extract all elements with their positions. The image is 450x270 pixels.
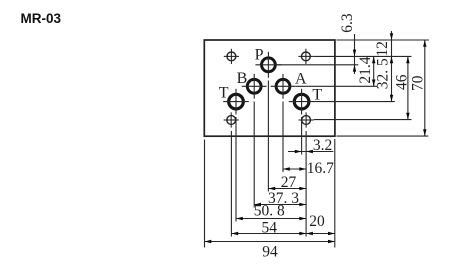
extension line port T left bbox=[235, 117, 237, 222]
bolt hole top-right bbox=[298, 49, 313, 64]
label T left bbox=[219, 85, 229, 102]
svg-text:50. 8: 50. 8 bbox=[254, 203, 285, 220]
dimension 70 bbox=[410, 40, 427, 136]
svg-text:32. 5: 32. 5 bbox=[375, 58, 392, 89]
port P bbox=[255, 52, 281, 78]
svg-text:MR-03: MR-03 bbox=[21, 11, 62, 26]
extension line port B bbox=[253, 102, 255, 208]
dimension 32.5 bbox=[375, 40, 394, 102]
dimension 16.7 bbox=[283, 160, 334, 177]
title MR-03 bbox=[21, 11, 62, 26]
svg-text:A: A bbox=[295, 70, 307, 87]
plate outline bbox=[204, 40, 335, 136]
extension line left bolt column bbox=[230, 131, 232, 237]
dimension 46 bbox=[393, 56, 410, 119]
dimension 94 bbox=[205, 240, 335, 261]
extension line right bolt column bbox=[305, 131, 307, 237]
dimension 21.4 bbox=[357, 56, 375, 86]
dimension 20 bbox=[306, 213, 335, 235]
svg-text:70: 70 bbox=[410, 75, 427, 91]
port B bbox=[242, 74, 267, 99]
dimension 54 bbox=[231, 220, 306, 237]
svg-text:T: T bbox=[219, 85, 229, 102]
svg-text:6.3: 6.3 bbox=[339, 13, 356, 33]
extension line port P bbox=[267, 81, 269, 192]
extension line port T row bbox=[315, 101, 395, 103]
svg-text:16.7: 16.7 bbox=[307, 160, 334, 177]
dimension 12 bbox=[374, 31, 393, 57]
port T right bbox=[289, 89, 315, 115]
port T left bbox=[223, 89, 249, 115]
svg-text:54: 54 bbox=[262, 220, 278, 237]
extension line plate top edge bbox=[337, 39, 429, 41]
extension line plate right edge bbox=[334, 139, 336, 248]
svg-text:27: 27 bbox=[281, 174, 297, 191]
extension line plate bottom edge bbox=[337, 135, 429, 137]
extension line port A row bbox=[296, 85, 378, 87]
label P bbox=[255, 46, 264, 63]
svg-text:94: 94 bbox=[262, 244, 278, 261]
dimension 37.3 bbox=[254, 190, 306, 207]
dimension 3.2 bbox=[288, 137, 333, 154]
dimension 27 bbox=[268, 174, 306, 191]
extension line plate left edge bbox=[204, 140, 206, 248]
dimension 50.8 bbox=[236, 203, 306, 221]
label A bbox=[295, 70, 307, 87]
extension line port P row bbox=[276, 64, 358, 66]
label B bbox=[237, 70, 248, 87]
extension line port A bbox=[282, 102, 284, 173]
extension line bottom bolt row bbox=[314, 119, 412, 121]
svg-text:20: 20 bbox=[309, 213, 325, 230]
svg-text:B: B bbox=[237, 70, 248, 87]
svg-text:46: 46 bbox=[393, 74, 410, 90]
port A bbox=[271, 74, 296, 99]
svg-text:3.2: 3.2 bbox=[313, 137, 332, 154]
dimension 6.3 bbox=[339, 13, 356, 74]
bolt hole top-left bbox=[224, 49, 239, 64]
label T right bbox=[312, 87, 322, 104]
svg-text:12: 12 bbox=[374, 41, 391, 57]
bolt hole bottom-left bbox=[224, 112, 239, 127]
svg-text:21.4: 21.4 bbox=[357, 56, 374, 83]
bolt hole bottom-right bbox=[299, 112, 314, 127]
svg-text:P: P bbox=[255, 46, 264, 63]
extension line port T right bbox=[301, 117, 303, 155]
extension line top bolt row bbox=[314, 55, 412, 57]
